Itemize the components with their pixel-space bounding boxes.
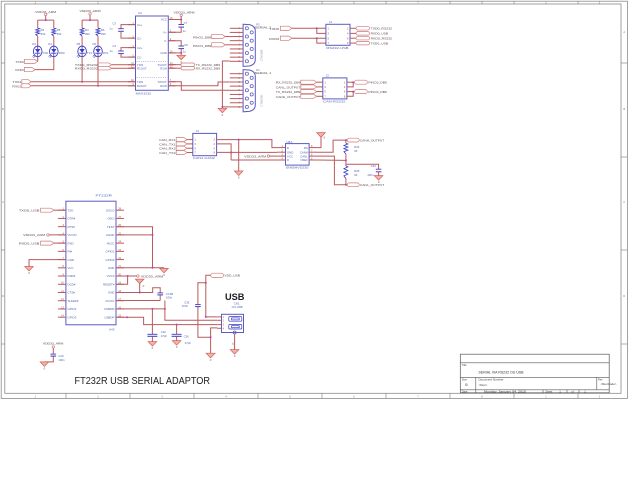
capacitor C35 xyxy=(182,283,211,338)
wire VREF xyxy=(317,159,346,161)
off-page RXD0_USB xyxy=(350,32,388,36)
svg-text:of: of xyxy=(571,389,573,393)
svg-text:390: 390 xyxy=(101,32,106,36)
svg-text:VDD33_ARM: VDD33_ARM xyxy=(174,11,195,15)
wire R2IN to SERIAL1 pin2 xyxy=(168,82,230,86)
svg-text:TEST: TEST xyxy=(107,225,115,229)
svg-text:R1IN: R1IN xyxy=(160,66,167,70)
capacitor C4 xyxy=(109,44,135,57)
svg-text:D5: D5 xyxy=(77,42,81,46)
svg-text:RXD0_RS232: RXD0_RS232 xyxy=(371,37,393,41)
svg-text:CANH_OUTPUT: CANH_OUTPUT xyxy=(276,95,301,99)
wire TX01 to T2IN xyxy=(31,81,135,83)
svg-text:DTR#: DTR# xyxy=(68,217,76,221)
svg-text:VDD_USB: VDD_USB xyxy=(224,274,240,278)
svg-text:1u: 1u xyxy=(109,27,113,31)
svg-text:C1-: C1- xyxy=(137,36,142,40)
resistor R4 xyxy=(80,28,90,36)
wire D4 to RXD0 xyxy=(35,57,54,70)
svg-text:FT232R: FT232R xyxy=(96,194,114,198)
wire to U5 R xyxy=(231,159,277,161)
junction xyxy=(139,292,141,294)
svg-text:D: D xyxy=(2,294,4,298)
wire D3 to TXD0 xyxy=(37,57,39,62)
svg-text:D3: D3 xyxy=(32,42,36,46)
power symbol VDD33_ARM (LED group 1) xyxy=(35,10,56,20)
junction xyxy=(352,91,354,93)
svg-text:VCCIO: VCCIO xyxy=(105,299,115,303)
wire GND pin xyxy=(168,52,181,54)
wire T2OUT to SERIAL1 pin3 xyxy=(168,82,230,91)
svg-text:TXD0: TXD0 xyxy=(269,27,279,31)
wire RXD0 branch xyxy=(317,38,326,43)
svg-text:C: C xyxy=(623,200,625,204)
svg-text:SERIAL 1: SERIAL 1 xyxy=(255,71,272,75)
svg-text:RS232-USB: RS232-USB xyxy=(326,46,348,50)
wire LED group 1 rail xyxy=(38,20,54,28)
junction xyxy=(81,81,83,83)
svg-text:Sheet: Sheet xyxy=(546,389,553,393)
svg-text:RTS#: RTS# xyxy=(68,225,76,229)
net label TXD0 xyxy=(15,59,37,64)
svg-text:CAN1-CAN2: CAN1-CAN2 xyxy=(193,156,216,160)
wire USB shield xyxy=(232,334,235,350)
svg-text:CANL_OUTPUT: CANL_OUTPUT xyxy=(276,85,301,89)
net labels into J2 xyxy=(276,80,323,99)
net label TX01 xyxy=(12,80,31,85)
svg-text:PINO2_DB9: PINO2_DB9 xyxy=(193,36,212,40)
wire LED group 2 rail xyxy=(82,20,98,28)
wire TEST xyxy=(116,227,153,268)
wire USBDM pin16 xyxy=(116,308,165,310)
svg-text:390: 390 xyxy=(85,32,90,36)
svg-text:Document Number: Document Number xyxy=(479,377,504,381)
wire USB GND pin4 xyxy=(211,328,218,353)
svg-text:D: D xyxy=(287,146,289,150)
net label PINO3_DB9 (to P2 pin3) xyxy=(193,43,230,48)
net label TXD0 xyxy=(269,26,292,31)
off-page TXD0_RS232 xyxy=(350,27,393,31)
resistor R6 xyxy=(96,28,106,36)
svg-text:VDD33_ARM: VDD33_ARM xyxy=(244,155,266,159)
svg-text:C36: C36 xyxy=(184,335,190,339)
svg-text:CTN2009: CTN2009 xyxy=(260,95,264,107)
svg-text:47pF: 47pF xyxy=(161,334,168,338)
net label RXD0_USB (RXD) xyxy=(19,241,66,245)
svg-text:TXD0: TXD0 xyxy=(15,60,24,64)
ground (U4) xyxy=(177,53,186,64)
transceiver U5A SN65HVD230 xyxy=(277,140,316,169)
wire R2 to D3 xyxy=(37,36,39,46)
wire R4 to D5 xyxy=(81,36,83,46)
svg-text:CAN-RS232: CAN-RS232 xyxy=(323,100,346,104)
wire R5 to D4 xyxy=(53,36,55,46)
junction xyxy=(352,81,354,83)
svg-text:Rev: Rev xyxy=(598,377,603,381)
svg-text:USBDP: USBDP xyxy=(104,315,114,319)
svg-text:100n: 100n xyxy=(166,295,173,299)
svg-text:VCC: VCC xyxy=(161,18,167,22)
connector J3 CAN1-CAN2 xyxy=(193,129,217,160)
junction xyxy=(345,159,347,161)
ground (CAN) xyxy=(234,171,243,180)
off-page PINO3_DB9 xyxy=(355,90,388,94)
wire CANH xyxy=(317,140,346,152)
svg-text:C4: C4 xyxy=(112,44,116,48)
junction xyxy=(97,85,99,87)
svg-text:TXD0_RS232: TXD0_RS232 xyxy=(371,27,393,31)
off-page RX_RS232_DB9 xyxy=(168,67,220,71)
svg-text:SLEEP#: SLEEP# xyxy=(68,299,79,303)
svg-text:TXD: TXD xyxy=(43,51,49,55)
wire GND pin21 xyxy=(116,267,164,269)
svg-text:TXD: TXD xyxy=(68,208,74,212)
svg-text:VCCIO: VCCIO xyxy=(68,233,78,237)
wire J2 pins 6-8 xyxy=(347,92,353,97)
LED D5 xyxy=(77,42,93,58)
junction xyxy=(45,19,47,21)
svg-text:GND: GND xyxy=(68,258,74,262)
resistor R26 xyxy=(344,140,360,160)
power symbol VDD33_ARM (C40) xyxy=(43,341,64,353)
svg-text:C33: C33 xyxy=(371,164,377,168)
ground (above GND18) xyxy=(136,279,145,292)
svg-text:RXD: RXD xyxy=(59,51,65,55)
svg-text:OSCO: OSCO xyxy=(106,208,115,212)
svg-text:J2: J2 xyxy=(326,74,330,78)
svg-text:D4: D4 xyxy=(48,42,52,46)
svg-text:C8: C8 xyxy=(184,43,188,47)
junction xyxy=(180,19,182,21)
svg-text:PINO3_DB9: PINO3_DB9 xyxy=(368,90,387,94)
connector J2 CAN-RS232 xyxy=(323,74,347,104)
wire J3 pin2 to U5 D xyxy=(217,140,278,148)
capacitor C33 xyxy=(346,164,382,177)
svg-text:U4: U4 xyxy=(138,11,142,15)
svg-text:CTN2009: CTN2009 xyxy=(260,49,264,61)
svg-text:FT232R USB SERIAL ADAPTOR: FT232R USB SERIAL ADAPTOR xyxy=(75,375,211,387)
svg-text:SERIAL VIA RS232 OU USB: SERIAL VIA RS232 OU USB xyxy=(479,370,524,374)
off-page TXD0_USB xyxy=(350,41,388,45)
net label TXD0_USB (TXD) xyxy=(19,208,66,212)
off-page TX_RS232_DB9 xyxy=(168,63,220,67)
wire J2 pins 2-4 xyxy=(347,82,353,87)
svg-text:Size: Size xyxy=(462,377,468,381)
junction xyxy=(345,139,347,141)
svg-text:GPIO1: GPIO1 xyxy=(106,250,115,254)
wire J3 pin4/pin8 xyxy=(217,144,232,160)
wire D- to USB xyxy=(165,301,217,321)
title block xyxy=(460,354,616,393)
USB text xyxy=(225,292,245,302)
svg-text:RXD0: RXD0 xyxy=(15,68,24,72)
svg-text:C7: C7 xyxy=(184,21,188,25)
wire P2 pin5 to ground xyxy=(222,61,229,107)
svg-text:D: D xyxy=(623,294,625,298)
svg-text:VCC: VCC xyxy=(68,266,74,270)
svg-text:VREF: VREF xyxy=(300,158,308,162)
svg-text:1u: 1u xyxy=(109,49,113,53)
wire VCCIO pin17 xyxy=(116,300,160,302)
svg-text:J1: J1 xyxy=(329,20,333,24)
wire USBDP pin15 xyxy=(116,317,217,324)
junction xyxy=(316,37,318,39)
resistor R5 xyxy=(52,28,62,36)
junction xyxy=(180,52,182,54)
net label TXD0_RS232 (to T1IN) xyxy=(75,63,112,67)
wire CANL xyxy=(317,156,346,185)
off-page CANL_OUTPUT xyxy=(346,183,385,187)
svg-text:TX1: TX1 xyxy=(87,51,93,55)
wire RS to ground xyxy=(317,137,322,147)
LED D3 xyxy=(32,42,48,58)
svg-text:TXD0_USB: TXD0_USB xyxy=(19,208,40,212)
U4 left pins xyxy=(128,22,147,88)
ground (RS) xyxy=(317,133,326,140)
junction xyxy=(152,267,154,269)
svg-text:10nF: 10nF xyxy=(182,304,189,308)
ground (USB) xyxy=(206,353,215,362)
power symbol VDD33_ARM (VCCIO) xyxy=(23,233,66,237)
svg-text:GPIO0: GPIO0 xyxy=(106,258,115,262)
svg-text:CANL_OUTPUT: CANL_OUTPUT xyxy=(360,183,385,187)
junction xyxy=(151,308,153,310)
junction xyxy=(345,184,347,186)
svg-text:CN-USB: CN-USB xyxy=(232,305,243,309)
net label RX01 xyxy=(12,84,31,89)
svg-text:100n: 100n xyxy=(58,358,65,362)
svg-text:GND: GND xyxy=(108,266,114,270)
svg-text:RI#: RI# xyxy=(68,250,73,254)
connector P2 SERIAL 2 (DB9) xyxy=(230,23,272,67)
svg-text:1u: 1u xyxy=(183,29,187,33)
svg-text:VDD33_ARM: VDD33_ARM xyxy=(43,341,64,345)
capacitor C32 xyxy=(147,309,167,342)
wire RX01 to R2OUT xyxy=(31,85,135,87)
wire RESET# xyxy=(116,276,128,284)
ground (C33) xyxy=(374,176,383,185)
svg-text:DSR#: DSR# xyxy=(68,274,76,278)
junction xyxy=(126,316,128,318)
U4 right pins xyxy=(157,17,175,88)
junction xyxy=(230,152,232,154)
capacitor C8 xyxy=(168,41,188,54)
svg-text:GPIO3: GPIO3 xyxy=(68,315,77,319)
svg-text:VDD33_ARM: VDD33_ARM xyxy=(141,275,164,279)
junction xyxy=(152,234,154,236)
svg-text:TXD0_USB: TXD0_USB xyxy=(371,41,389,45)
svg-text:60: 60 xyxy=(354,149,358,153)
LED D4 xyxy=(48,42,64,58)
power symbol VDD33_ARM (VCC3) xyxy=(137,275,164,279)
svg-text:V-: V- xyxy=(164,39,167,43)
capacitor C13B xyxy=(157,292,173,301)
net label RXD0_RS232 (to R1OUT) xyxy=(75,66,112,70)
off-page RXD0_RS232 xyxy=(350,36,393,40)
svg-text:R2OUT: R2OUT xyxy=(137,84,147,88)
svg-text:VDD33_ARM: VDD33_ARM xyxy=(23,233,46,237)
svg-text:C3: C3 xyxy=(112,22,116,26)
svg-text:R: R xyxy=(287,158,289,162)
ground (serial) xyxy=(218,107,227,117)
LED D6 xyxy=(93,42,109,58)
capacitor C40 xyxy=(44,354,65,362)
svg-text:C2+: C2+ xyxy=(137,46,143,50)
svg-text:B: B xyxy=(2,107,4,111)
resistor R25 xyxy=(344,160,360,184)
wire R6 to D6 xyxy=(97,36,99,46)
junction xyxy=(316,27,318,29)
wire VCC xyxy=(168,19,181,21)
net label RXD0 xyxy=(15,68,35,73)
svg-text:AGND: AGND xyxy=(106,233,114,237)
svg-text:TX_RS232_DB9: TX_RS232_DB9 xyxy=(276,90,301,94)
wire RXD0 xyxy=(292,37,326,39)
junction xyxy=(89,19,91,21)
svg-text:47pF: 47pF xyxy=(185,341,192,345)
svg-text:CANH_OUTPUT: CANH_OUTPUT xyxy=(360,138,385,142)
svg-text:Date:: Date: xyxy=(462,389,468,393)
connector J1 RS232-USB xyxy=(326,20,350,50)
svg-text:C: C xyxy=(2,200,4,204)
wire TXD0 branch xyxy=(317,28,326,33)
off-page CANH_OUTPUT xyxy=(346,138,385,142)
off-page PINO2_DB9 xyxy=(355,80,388,84)
op-amp U4 MAX3232 body xyxy=(136,11,169,95)
wire TXD0 xyxy=(292,27,326,29)
ground (pin7) xyxy=(25,267,34,276)
junction xyxy=(210,336,212,338)
power symbol VDD33_ARM (LED group 2) xyxy=(80,9,101,20)
wire GND pin18 xyxy=(116,288,160,293)
net labels into J3 xyxy=(159,138,193,155)
net label PINO2_DB9 (to P2 pin2) xyxy=(193,34,230,39)
capacitor C3 xyxy=(109,22,135,38)
ground (C32) xyxy=(148,342,157,351)
svg-text:SN65HVD230: SN65HVD230 xyxy=(286,165,309,169)
wire GND pin7 xyxy=(29,260,66,267)
svg-text:C1+: C1+ xyxy=(137,23,143,27)
svg-text:V+: V+ xyxy=(163,31,167,35)
svg-text:CTS#: CTS# xyxy=(68,291,76,295)
ground (pin21) xyxy=(160,268,169,277)
ground (C40) xyxy=(40,362,49,371)
svg-text:60: 60 xyxy=(354,173,358,177)
svg-text:B: B xyxy=(623,107,625,111)
wire D5 down xyxy=(81,57,83,82)
svg-text:PINO2_DB9: PINO2_DB9 xyxy=(368,81,387,85)
power symbol VDD33_ARM (U5 VCC) xyxy=(244,155,277,159)
svg-text:R1OUT: R1OUT xyxy=(137,66,147,70)
capacitor C7 xyxy=(168,20,187,34)
power symbol VDD33_ARM (U4 VCC) xyxy=(174,11,195,20)
junction xyxy=(127,275,129,277)
svg-text:AVCC: AVCC xyxy=(107,241,115,245)
svg-text:USBDM: USBDM xyxy=(104,307,115,311)
svg-text:U43: U43 xyxy=(109,328,115,332)
svg-text:C2-: C2- xyxy=(137,55,142,59)
junction xyxy=(238,139,240,141)
svg-text:RS: RS xyxy=(304,146,308,150)
off-page VDD_USB xyxy=(211,273,240,277)
svg-text:1u: 1u xyxy=(183,50,187,54)
wire J3 pin8 to U5 GND xyxy=(217,151,278,153)
resistor R2 xyxy=(36,28,46,36)
svg-text:RX_RS232_DB9: RX_RS232_DB9 xyxy=(276,81,301,85)
svg-text:RX_RS232_DB9: RX_RS232_DB9 xyxy=(196,67,221,71)
junction xyxy=(221,106,223,108)
ground (C36) xyxy=(172,341,181,350)
svg-text:A: A xyxy=(2,30,4,34)
svg-text:330: 330 xyxy=(57,32,62,36)
junction xyxy=(205,316,207,318)
junction xyxy=(205,282,207,284)
svg-text:GND: GND xyxy=(160,51,166,55)
wire VCC3 xyxy=(116,275,137,277)
svg-text:330: 330 xyxy=(41,32,46,36)
svg-text:RXD0: RXD0 xyxy=(269,37,279,41)
wire to T1IN xyxy=(112,64,136,66)
wire VDD_USB xyxy=(206,275,218,317)
wire to R1OUT xyxy=(112,67,136,69)
svg-text:<Doc>: <Doc> xyxy=(479,383,488,387)
ground (shield) xyxy=(230,350,239,359)
capacitor C36 xyxy=(172,325,192,345)
svg-text:RESET#: RESET# xyxy=(103,282,115,286)
svg-text:OSCI: OSCI xyxy=(107,217,114,221)
svg-text:Monday, January 04, 2010: Monday, January 04, 2010 xyxy=(484,390,526,394)
svg-text:RXD0_USB: RXD0_USB xyxy=(371,32,389,36)
svg-text:Title: Title xyxy=(462,363,467,367)
junction xyxy=(176,324,178,326)
svg-text:J3: J3 xyxy=(196,129,200,133)
svg-text:<RevCode>: <RevCode> xyxy=(601,382,617,386)
svg-text:D6: D6 xyxy=(93,42,97,46)
svg-text:A: A xyxy=(623,30,625,34)
schematic title text xyxy=(75,375,211,387)
svg-text:GPIO2: GPIO2 xyxy=(68,307,77,311)
svg-text:RXD: RXD xyxy=(68,241,74,245)
IC U43 FT232R xyxy=(58,194,124,332)
svg-text:R2IN: R2IN xyxy=(160,84,167,88)
svg-text:PINO3_DB9: PINO3_DB9 xyxy=(193,44,212,48)
junction xyxy=(164,308,166,310)
wire AGND xyxy=(116,234,153,236)
svg-text:MAX3232: MAX3232 xyxy=(136,91,152,95)
svg-text:RX01: RX01 xyxy=(12,85,21,89)
svg-text:VCC3: VCC3 xyxy=(107,274,115,278)
svg-text:RX1: RX1 xyxy=(103,51,109,55)
connector P1 SERIAL 1 (DB9) xyxy=(230,68,272,112)
svg-text:100n: 100n xyxy=(367,173,374,177)
svg-text:RXD0_RS232: RXD0_RS232 xyxy=(75,67,98,71)
wire ground drop xyxy=(238,140,240,171)
svg-text:RXD0_USB: RXD0_USB xyxy=(19,241,40,245)
connector CN1 USB xyxy=(217,302,243,334)
svg-text:DCD#: DCD# xyxy=(68,282,76,286)
svg-text:CAN_TX2: CAN_TX2 xyxy=(159,151,176,155)
svg-text:GND: GND xyxy=(108,291,114,295)
net label RXD0 xyxy=(269,36,292,41)
wire D6 down xyxy=(97,57,99,86)
svg-text:U5A: U5A xyxy=(287,140,293,144)
